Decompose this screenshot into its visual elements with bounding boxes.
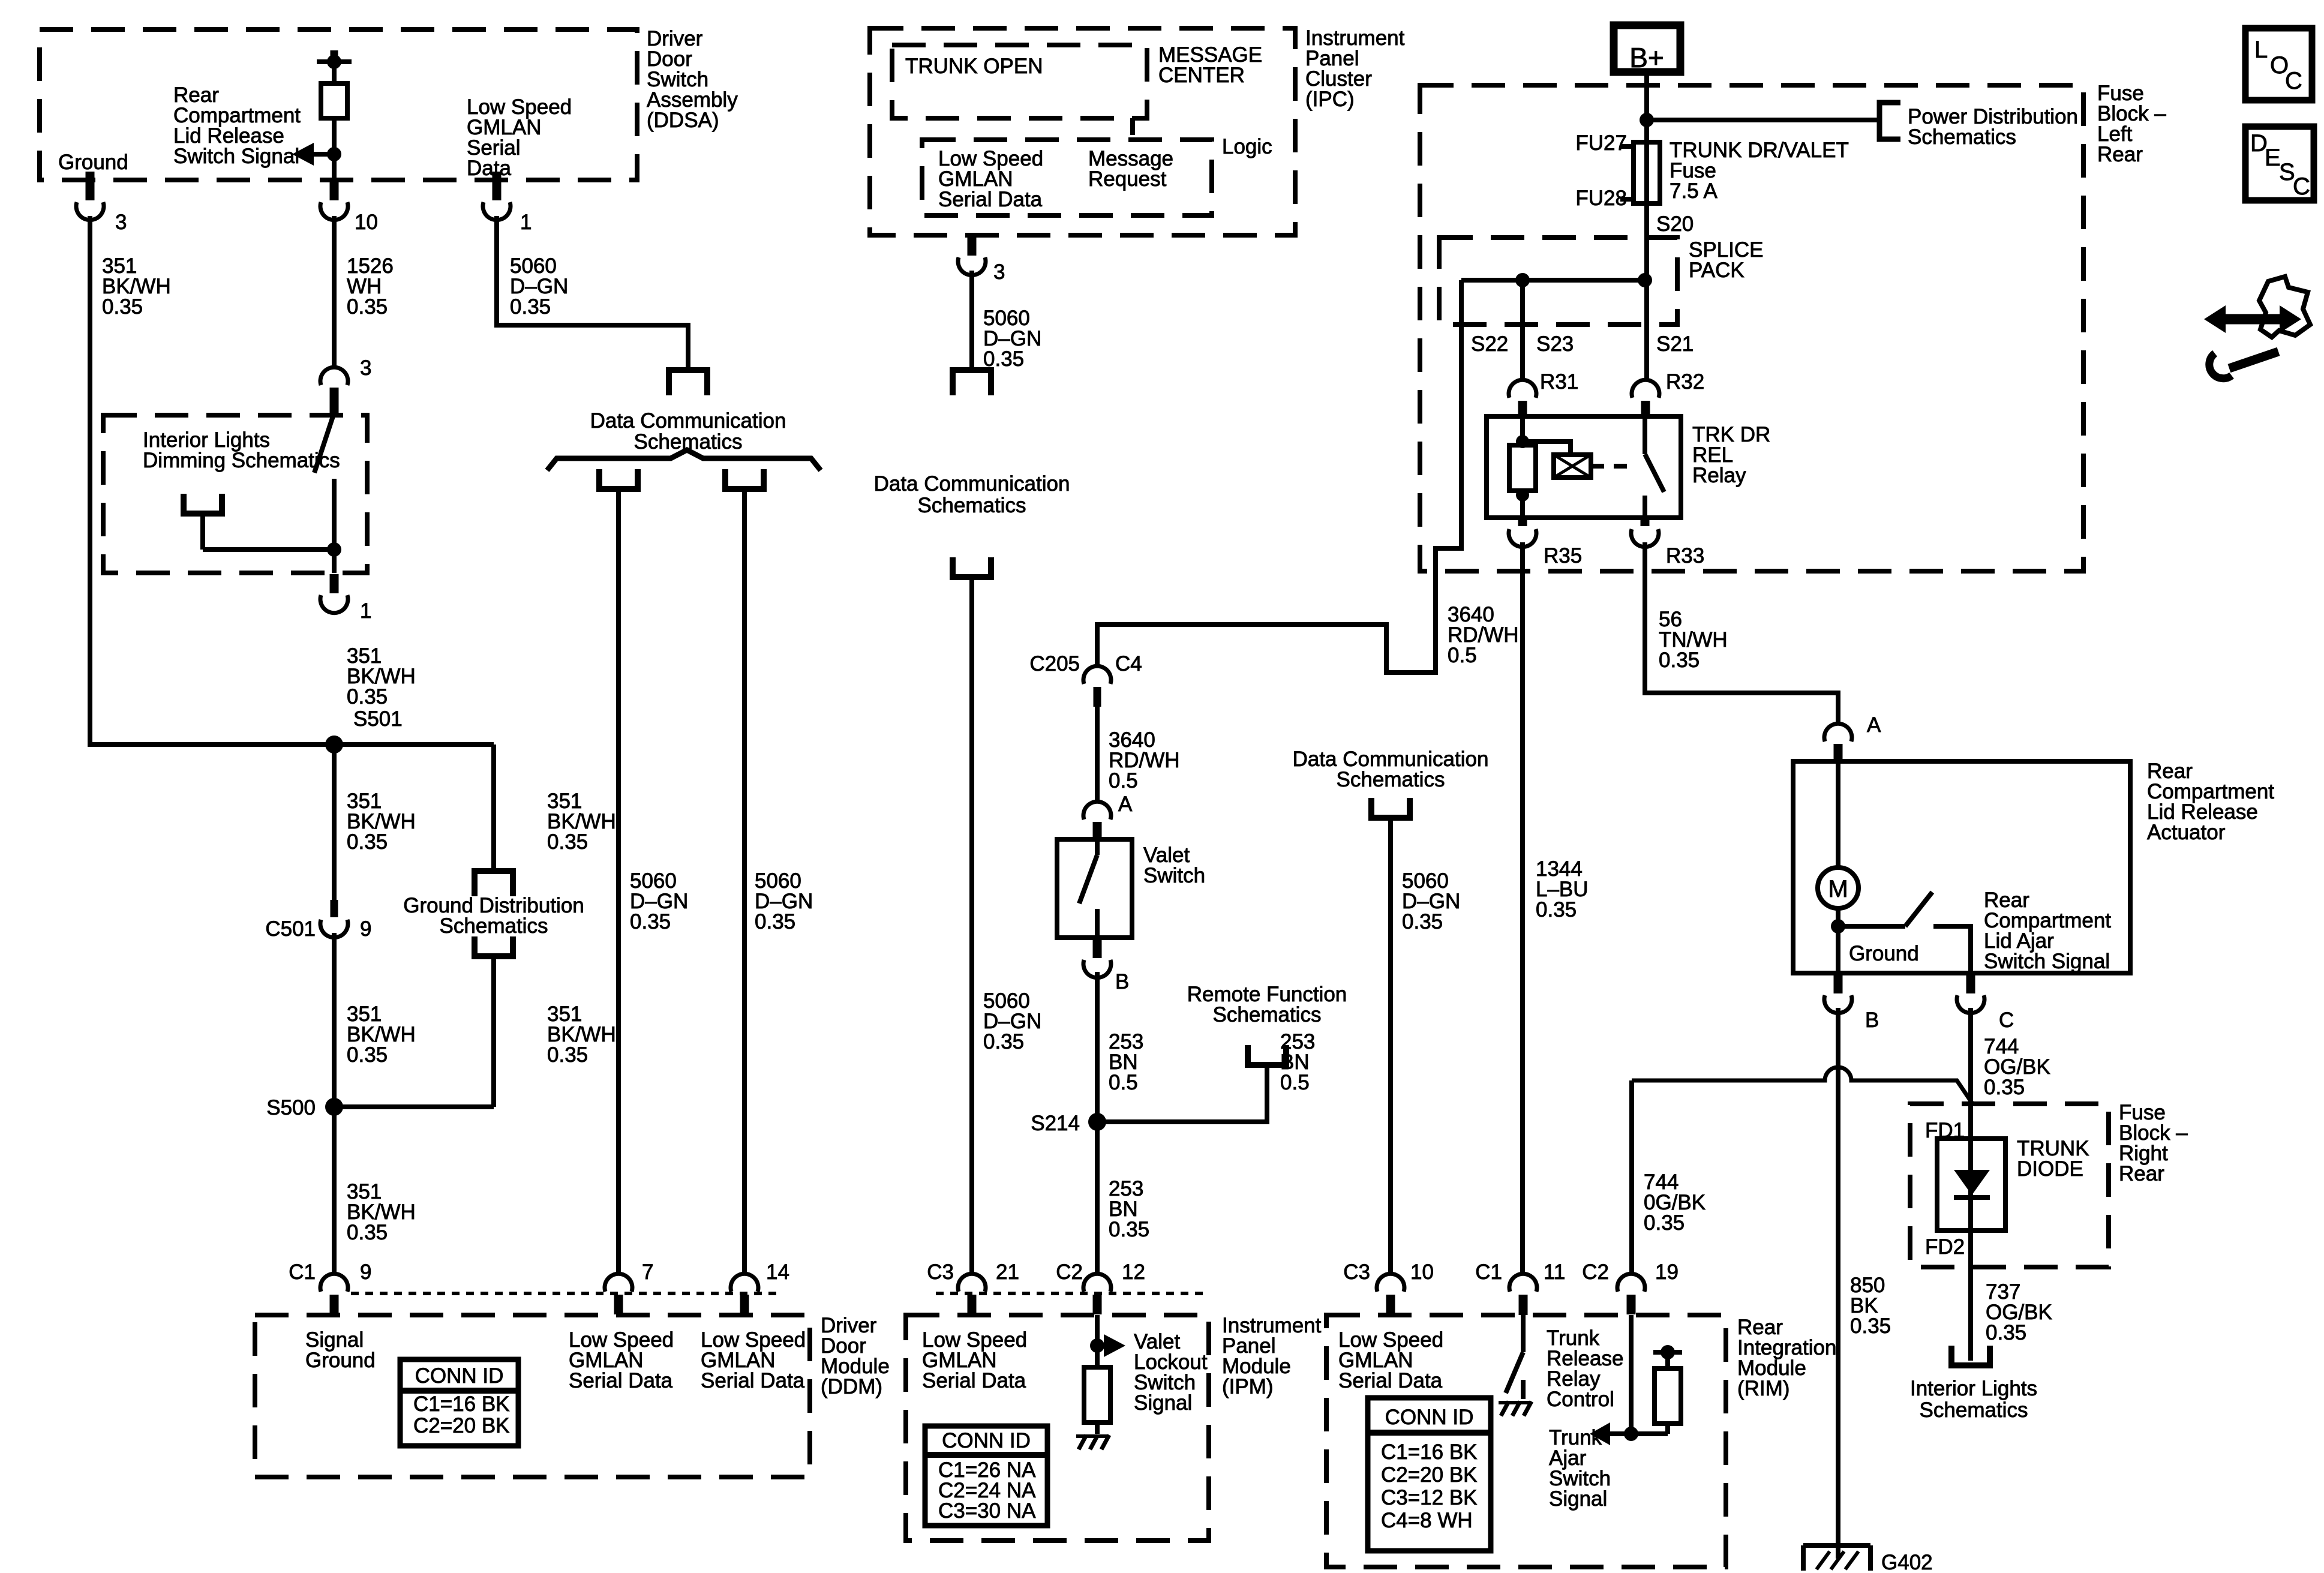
svg-text:0.35: 0.35 bbox=[1986, 1321, 2026, 1344]
svg-text:FU28: FU28 bbox=[1575, 187, 1627, 210]
svg-text:C2: C2 bbox=[1056, 1260, 1083, 1284]
svg-text:C2=20 BK: C2=20 BK bbox=[1381, 1463, 1478, 1487]
svg-text:Serial Data: Serial Data bbox=[569, 1369, 673, 1392]
svg-text:C2: C2 bbox=[1582, 1260, 1609, 1284]
svg-text:Dimming Schematics: Dimming Schematics bbox=[143, 449, 340, 472]
svg-text:C501: C501 bbox=[265, 917, 316, 941]
svg-text:C: C bbox=[1999, 1008, 2014, 1032]
svg-text:Data: Data bbox=[467, 157, 511, 180]
svg-text:R35: R35 bbox=[1544, 544, 1582, 568]
svg-text:B: B bbox=[1115, 970, 1129, 993]
svg-text:M: M bbox=[1828, 876, 1848, 902]
svg-text:1: 1 bbox=[520, 211, 532, 234]
svg-text:0.35: 0.35 bbox=[1659, 649, 1700, 672]
svg-text:S501: S501 bbox=[353, 707, 403, 731]
svg-text:TRUNK OPEN: TRUNK OPEN bbox=[905, 55, 1043, 78]
svg-text:0.35: 0.35 bbox=[347, 830, 388, 854]
svg-text:S500: S500 bbox=[266, 1096, 316, 1119]
svg-text:G402: G402 bbox=[1881, 1551, 1933, 1573]
svg-text:0.35: 0.35 bbox=[1109, 1218, 1149, 1241]
svg-text:0.35: 0.35 bbox=[510, 295, 551, 319]
svg-text:3: 3 bbox=[115, 211, 127, 234]
svg-text:C4: C4 bbox=[1115, 652, 1142, 676]
svg-text:Schematics: Schematics bbox=[1337, 768, 1445, 791]
svg-text:C205: C205 bbox=[1029, 652, 1080, 676]
svg-text:S21: S21 bbox=[1656, 332, 1694, 356]
svg-text:Rear: Rear bbox=[2097, 143, 2143, 166]
svg-text:C3=12 BK: C3=12 BK bbox=[1381, 1486, 1478, 1509]
svg-text:Serial Data: Serial Data bbox=[938, 188, 1043, 211]
svg-text:0.5: 0.5 bbox=[1280, 1071, 1310, 1094]
svg-text:9: 9 bbox=[360, 1260, 371, 1284]
svg-text:Switch Signal: Switch Signal bbox=[1984, 950, 2110, 973]
svg-text:Serial Data: Serial Data bbox=[1338, 1369, 1443, 1392]
svg-text:Switch: Switch bbox=[1143, 864, 1205, 887]
svg-text:3: 3 bbox=[993, 260, 1005, 284]
svg-text:C3: C3 bbox=[1343, 1260, 1370, 1284]
svg-text:B: B bbox=[1865, 1008, 1879, 1032]
svg-text:0.35: 0.35 bbox=[1402, 910, 1443, 933]
svg-text:CONN ID: CONN ID bbox=[942, 1429, 1031, 1452]
svg-text:Signal: Signal bbox=[1549, 1487, 1607, 1511]
svg-text:FU27: FU27 bbox=[1575, 131, 1627, 155]
svg-text:A: A bbox=[1118, 792, 1133, 816]
svg-text:7.5 A: 7.5 A bbox=[1670, 179, 1718, 203]
svg-text:(RIM): (RIM) bbox=[1737, 1377, 1789, 1400]
svg-text:Ground: Ground bbox=[58, 151, 128, 174]
svg-text:0.35: 0.35 bbox=[347, 685, 388, 709]
svg-text:Switch Signal: Switch Signal bbox=[173, 145, 299, 168]
svg-text:Schematics: Schematics bbox=[1908, 125, 2016, 149]
svg-text:Serial Data: Serial Data bbox=[701, 1369, 805, 1392]
svg-text:CONN ID: CONN ID bbox=[415, 1364, 504, 1388]
svg-text:0.35: 0.35 bbox=[547, 830, 588, 854]
svg-text:R32: R32 bbox=[1666, 370, 1704, 394]
svg-text:1: 1 bbox=[360, 599, 371, 623]
svg-text:0.35: 0.35 bbox=[347, 1043, 388, 1067]
svg-text:0.35: 0.35 bbox=[1536, 898, 1577, 921]
svg-text:9: 9 bbox=[360, 917, 371, 941]
svg-text:19: 19 bbox=[1655, 1260, 1679, 1284]
svg-text:(IPC): (IPC) bbox=[1305, 88, 1355, 111]
svg-text:Ground: Ground bbox=[1849, 942, 1919, 965]
svg-text:Serial Data: Serial Data bbox=[922, 1369, 1026, 1392]
svg-text:Actuator: Actuator bbox=[2147, 821, 2226, 844]
svg-text:7: 7 bbox=[642, 1260, 653, 1284]
svg-text:3: 3 bbox=[360, 356, 371, 380]
svg-text:14: 14 bbox=[766, 1260, 789, 1284]
svg-text:0.5: 0.5 bbox=[1109, 769, 1138, 792]
svg-text:0.35: 0.35 bbox=[630, 910, 671, 933]
svg-text:12: 12 bbox=[1122, 1260, 1145, 1284]
svg-text:C1: C1 bbox=[1475, 1260, 1502, 1284]
svg-text:S22: S22 bbox=[1471, 332, 1508, 356]
svg-text:DIODE: DIODE bbox=[2017, 1157, 2083, 1181]
svg-text:0.35: 0.35 bbox=[347, 1221, 388, 1244]
svg-text:0.35: 0.35 bbox=[102, 295, 143, 319]
svg-text:C2=20 BK: C2=20 BK bbox=[413, 1414, 510, 1437]
svg-text:Rear: Rear bbox=[2119, 1162, 2164, 1185]
svg-text:L: L bbox=[2254, 37, 2268, 63]
svg-text:Signal: Signal bbox=[1134, 1391, 1192, 1415]
svg-text:CONN ID: CONN ID bbox=[1385, 1406, 1474, 1429]
svg-text:10: 10 bbox=[355, 211, 378, 234]
svg-text:(IPM): (IPM) bbox=[1222, 1375, 1274, 1398]
svg-text:Schematics: Schematics bbox=[1213, 1003, 1322, 1026]
svg-text:C1=16 BK: C1=16 BK bbox=[1381, 1440, 1478, 1464]
svg-text:Logic: Logic bbox=[1222, 135, 1272, 158]
svg-text:Data Communication: Data Communication bbox=[874, 472, 1070, 496]
svg-text:(DDSA): (DDSA) bbox=[647, 109, 719, 132]
svg-text:0.35: 0.35 bbox=[347, 295, 388, 319]
svg-text:Request: Request bbox=[1088, 167, 1167, 191]
svg-text:(DDM): (DDM) bbox=[821, 1375, 882, 1398]
svg-text:R33: R33 bbox=[1666, 544, 1704, 568]
svg-text:Schematics: Schematics bbox=[918, 494, 1026, 517]
svg-text:0.5: 0.5 bbox=[1448, 644, 1477, 667]
svg-text:S214: S214 bbox=[1031, 1112, 1080, 1135]
svg-text:FD2: FD2 bbox=[1925, 1235, 1965, 1259]
svg-text:0.35: 0.35 bbox=[983, 1030, 1024, 1053]
svg-text:10: 10 bbox=[1410, 1260, 1434, 1284]
svg-text:R31: R31 bbox=[1540, 370, 1578, 394]
svg-text:0.35: 0.35 bbox=[755, 910, 795, 933]
svg-text:21: 21 bbox=[996, 1260, 1019, 1284]
svg-text:E: E bbox=[2265, 145, 2281, 171]
svg-text:C3=30 NA: C3=30 NA bbox=[938, 1499, 1036, 1523]
svg-text:Ground: Ground bbox=[305, 1349, 376, 1372]
svg-text:B+: B+ bbox=[1629, 42, 1664, 73]
svg-text:Control: Control bbox=[1547, 1388, 1614, 1411]
svg-text:C: C bbox=[2293, 173, 2310, 200]
svg-text:Interior Lights: Interior Lights bbox=[1910, 1377, 2037, 1400]
svg-text:Data Communication: Data Communication bbox=[590, 409, 786, 433]
svg-text:S23: S23 bbox=[1536, 332, 1574, 356]
svg-text:0.35: 0.35 bbox=[1984, 1076, 2025, 1099]
svg-text:0.5: 0.5 bbox=[1109, 1071, 1138, 1094]
svg-text:Schematics: Schematics bbox=[1920, 1398, 2028, 1422]
svg-text:CENTER: CENTER bbox=[1158, 64, 1245, 87]
svg-text:Relay: Relay bbox=[1692, 464, 1746, 487]
svg-text:C: C bbox=[2285, 68, 2302, 94]
svg-text:A: A bbox=[1867, 713, 1881, 737]
svg-text:0.35: 0.35 bbox=[547, 1043, 588, 1067]
svg-text:C4=8 WH: C4=8 WH bbox=[1381, 1509, 1473, 1532]
svg-text:Schematics: Schematics bbox=[440, 914, 548, 938]
svg-text:PACK: PACK bbox=[1689, 259, 1744, 282]
svg-text:C1=16 BK: C1=16 BK bbox=[413, 1392, 510, 1416]
svg-text:0.35: 0.35 bbox=[1644, 1211, 1685, 1235]
svg-text:0.35: 0.35 bbox=[1850, 1314, 1891, 1338]
svg-text:C3: C3 bbox=[927, 1260, 954, 1284]
svg-text:S20: S20 bbox=[1656, 212, 1694, 236]
svg-text:C1: C1 bbox=[289, 1260, 316, 1284]
svg-text:11: 11 bbox=[1544, 1260, 1565, 1284]
